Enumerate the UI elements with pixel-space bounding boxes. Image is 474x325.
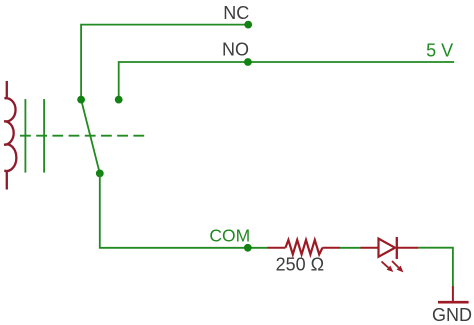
svg-text:GND: GND: [432, 305, 472, 325]
relay core bar 1: [24, 99, 26, 173]
svg-text:NO: NO: [222, 40, 249, 60]
switch pole COM dot: [96, 170, 104, 178]
wire NC horizontal+vertical: [81, 25, 248, 100]
resistor R1 lead right: [323, 247, 341, 249]
svg-text:5 V: 5 V: [426, 41, 453, 61]
LED D1 lead left: [361, 247, 379, 249]
switch contact NO dot: [115, 96, 123, 104]
switch contact NC dot: [77, 96, 85, 104]
relay coil L1: [4, 81, 16, 190]
relay core bar 2: [43, 99, 45, 173]
wire LED to GND corner: [418, 248, 453, 286]
svg-text:250 Ω: 250 Ω: [276, 255, 325, 275]
LED D1 emission arrow 1: [382, 262, 394, 273]
LED D1 triangle: [379, 239, 396, 257]
node COM dot: [244, 244, 252, 252]
switch blade: [81, 100, 100, 174]
wire COM down and right: [100, 173, 268, 247]
wire NO horizontal+vertical: [119, 62, 455, 100]
LED D1 cathode bar: [396, 237, 398, 259]
LED D1 lead right: [397, 247, 419, 249]
node NO dot: [244, 58, 252, 66]
node NC dot: [244, 21, 252, 29]
wire GND lead red: [452, 286, 454, 302]
relay mechanical link (dashed): [20, 135, 145, 137]
LED D1 emission arrow 2: [392, 261, 403, 272]
resistor R1 lead left: [268, 247, 286, 249]
ground symbol: [438, 301, 469, 304]
svg-text:COM: COM: [209, 226, 250, 246]
svg-text:NC: NC: [223, 3, 249, 23]
wire between resistor and LED: [340, 247, 361, 249]
resistor R1 zigzag: [286, 240, 323, 255]
